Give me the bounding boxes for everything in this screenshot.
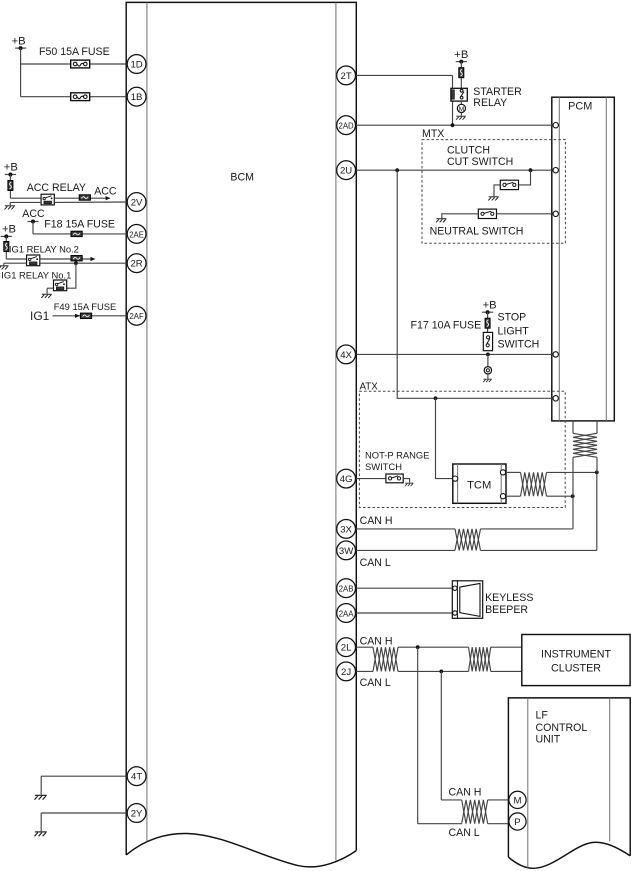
svg-text:IG1 RELAY No.2: IG1 RELAY No.2 — [9, 244, 79, 255]
svg-text:+B: +B — [2, 224, 16, 236]
svg-text:2AA: 2AA — [339, 609, 355, 618]
svg-text:3W: 3W — [339, 546, 354, 557]
svg-text:F50 15A FUSE: F50 15A FUSE — [39, 46, 110, 58]
svg-text:LF: LF — [536, 710, 549, 722]
svg-text:+B: +B — [454, 49, 468, 61]
svg-text:SWITCH: SWITCH — [365, 461, 402, 472]
svg-text:M: M — [459, 106, 465, 113]
svg-text:+B: +B — [12, 35, 26, 47]
svg-text:2AB: 2AB — [339, 585, 354, 594]
svg-text:NOT-P RANGE: NOT-P RANGE — [365, 449, 429, 460]
svg-text:UNIT: UNIT — [536, 734, 561, 746]
svg-text:CONTROL: CONTROL — [536, 722, 588, 734]
svg-text:2L: 2L — [341, 643, 352, 654]
svg-text:P: P — [514, 817, 520, 828]
svg-text:4G: 4G — [340, 474, 353, 485]
svg-text:IG1 RELAY No.1: IG1 RELAY No.1 — [1, 269, 71, 280]
svg-text:+B: +B — [4, 162, 18, 174]
svg-text:KEYLESS: KEYLESS — [485, 592, 533, 604]
svg-text:BCM: BCM — [230, 172, 254, 184]
svg-text:STOP: STOP — [498, 312, 527, 324]
svg-text:ACC: ACC — [22, 208, 45, 220]
svg-text:ATX: ATX — [360, 381, 379, 392]
svg-text:CAN H: CAN H — [360, 515, 393, 527]
svg-text:IG1: IG1 — [30, 309, 50, 323]
svg-text:2AD: 2AD — [339, 122, 355, 131]
svg-text:F49 15A FUSE: F49 15A FUSE — [54, 301, 117, 312]
svg-text:1D: 1D — [130, 59, 142, 70]
svg-text:2R: 2R — [130, 259, 142, 270]
svg-text:MTX: MTX — [422, 128, 444, 140]
svg-text:2U: 2U — [340, 166, 352, 177]
svg-text:LIGHT: LIGHT — [498, 326, 530, 338]
svg-text:INSTRUMENT: INSTRUMENT — [541, 649, 612, 661]
svg-text:BEEPER: BEEPER — [485, 604, 528, 616]
svg-text:CAN L: CAN L — [360, 557, 391, 569]
svg-text:4X: 4X — [340, 350, 352, 361]
svg-text:TCM: TCM — [467, 480, 491, 492]
svg-text:1B: 1B — [131, 92, 143, 103]
svg-text:STARTER: STARTER — [473, 86, 522, 98]
svg-text:CAN H: CAN H — [449, 787, 482, 799]
svg-text:ACC: ACC — [94, 185, 117, 197]
svg-text:2AF: 2AF — [129, 312, 144, 321]
svg-text:F18 15A FUSE: F18 15A FUSE — [44, 219, 115, 231]
svg-text:CAN L: CAN L — [449, 827, 480, 839]
svg-text:CAN L: CAN L — [360, 677, 391, 689]
svg-text:F17 10A FUSE: F17 10A FUSE — [411, 319, 482, 331]
svg-text:SWITCH: SWITCH — [498, 339, 540, 351]
svg-text:PCM: PCM — [568, 101, 592, 113]
svg-text:NEUTRAL SWITCH: NEUTRAL SWITCH — [430, 226, 524, 238]
svg-text:M: M — [514, 795, 522, 806]
svg-text:4T: 4T — [131, 772, 142, 783]
svg-text:2J: 2J — [341, 667, 351, 678]
svg-text:+B: +B — [483, 299, 497, 311]
svg-text:CAN H: CAN H — [360, 636, 393, 648]
svg-text:CUT SWITCH: CUT SWITCH — [447, 156, 513, 168]
svg-text:CLUSTER: CLUSTER — [551, 663, 601, 675]
svg-text:2AE: 2AE — [129, 230, 144, 239]
svg-text:RELAY: RELAY — [473, 97, 507, 109]
svg-text:3X: 3X — [340, 524, 352, 535]
svg-text:2T: 2T — [340, 71, 351, 82]
svg-text:2V: 2V — [131, 197, 143, 208]
svg-text:ACC RELAY: ACC RELAY — [27, 182, 86, 194]
svg-text:CLUTCH: CLUTCH — [447, 145, 490, 157]
svg-text:2Y: 2Y — [131, 808, 143, 819]
